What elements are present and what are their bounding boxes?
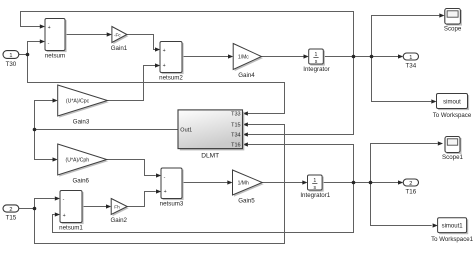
wire: Scope1 riser and simout1 line — [371, 144, 438, 226]
svg-text:+: + — [163, 63, 166, 69]
svg-text:Scope: Scope — [444, 26, 462, 33]
gain Gain6 — [58, 144, 108, 185]
arrowhead 14 — [243, 142, 248, 146]
svg-text:-: - — [63, 197, 65, 203]
arrowhead 8 — [398, 54, 403, 58]
arrowhead 25 — [438, 141, 443, 145]
svg-text:Integrator: Integrator — [303, 66, 329, 73]
svg-text:Scope1: Scope1 — [442, 154, 464, 161]
wire: netsum1 out to Gain2 — [82, 206, 106, 208]
svg-text:To Workspace: To Workspace — [433, 112, 472, 119]
to workspace simout — [433, 94, 472, 120]
svg-text:Integrator1: Integrator1 — [300, 192, 330, 199]
svg-text:Gain4: Gain4 — [238, 72, 255, 79]
arrowhead 17 — [55, 196, 60, 200]
arrowhead 15 — [53, 98, 58, 102]
svg-text:1/Mh: 1/Mh — [238, 180, 249, 186]
svg-text:s: s — [314, 185, 317, 191]
arrowhead 19 — [106, 204, 111, 208]
arrowhead 18 — [55, 212, 60, 216]
svg-text:Gain2: Gain2 — [110, 217, 127, 224]
scope Scope1 — [442, 137, 464, 162]
wire: Gain3 out to netsum2 in2 — [107, 66, 154, 101]
junction dot 3 — [26, 53, 30, 57]
arrowhead 23 — [302, 180, 307, 184]
svg-text:(U*A)/Cpc: (U*A)/Cpc — [66, 98, 90, 104]
scope Scope — [444, 9, 462, 33]
arrowhead 20 — [156, 173, 161, 177]
arrowhead 5 — [155, 63, 160, 67]
wire: Gain1 out to netsum2 in1 — [127, 35, 155, 50]
svg-text:Gain3: Gain3 — [73, 119, 90, 126]
svg-text:1: 1 — [9, 53, 12, 59]
arrowhead 13 — [243, 132, 248, 136]
junction dot 1 — [352, 55, 356, 59]
svg-text:-: - — [164, 175, 166, 181]
port inport 1 T30 — [3, 51, 19, 68]
svg-text:netsum: netsum — [45, 52, 65, 59]
arrowhead 2 — [40, 39, 45, 43]
wire: feedback T34 to netsum and DLMT T34 — [21, 12, 354, 135]
junction dot 4 — [33, 128, 37, 132]
svg-text:T16: T16 — [231, 143, 240, 149]
port outport 1 T34 — [403, 53, 418, 69]
svg-text:+: + — [48, 25, 51, 31]
wire: Scope riser and simout line — [372, 16, 439, 102]
integrator Integrator — [303, 49, 329, 73]
wire: T15 input to netsum1 in1 and DLMT T15 — [19, 125, 285, 244]
integrator Integrator1 — [300, 175, 330, 199]
gain Gain4 — [233, 44, 263, 80]
svg-text:netsum3: netsum3 — [160, 200, 184, 207]
arrowhead 22 — [227, 180, 232, 184]
sum block netsum1 — [59, 191, 83, 232]
junction dot 6 — [352, 181, 356, 185]
svg-text:netsum1: netsum1 — [59, 225, 83, 232]
sum block netsum3 — [160, 168, 184, 207]
gain Gain2 — [110, 199, 128, 225]
arrowhead 7 — [304, 54, 309, 58]
sum block netsum — [45, 19, 67, 60]
svg-text:T15: T15 — [6, 215, 17, 222]
svg-text:1: 1 — [409, 55, 412, 61]
wire: netsum3 out to Gain5 — [182, 182, 227, 184]
svg-text:+: + — [164, 189, 167, 195]
svg-text:Gain6: Gain6 — [72, 178, 89, 185]
svg-text:+: + — [163, 48, 166, 54]
wire: DLMT Out1 to Gain3 and Gain6 — [35, 101, 179, 160]
wire: Gain6 out to netsum3 in1 — [107, 160, 156, 176]
arrowhead 21 — [156, 189, 161, 193]
wire: Integrator out to T34 outport — [323, 56, 397, 58]
wire: Gain5 out to Integrator1 — [262, 182, 302, 184]
arrowhead 24 — [398, 180, 403, 184]
svg-text:Gain5: Gain5 — [238, 198, 255, 205]
svg-text:T16: T16 — [406, 188, 417, 195]
to workspace simout1 — [431, 218, 473, 243]
gain Gain3 — [58, 85, 109, 126]
arrowhead 12 — [243, 122, 248, 126]
arrowhead 1 — [40, 24, 45, 28]
wire: Gain4 out to Integrator — [261, 56, 303, 58]
arrowhead 10 — [431, 99, 436, 103]
port outport 2 T16 — [403, 179, 418, 195]
svg-text:2: 2 — [409, 181, 412, 187]
wire: netsum2 out to Gain4 — [182, 56, 228, 58]
svg-text:netsum2: netsum2 — [159, 75, 183, 82]
svg-text:Gain1: Gain1 — [111, 45, 128, 52]
svg-text:Out1: Out1 — [180, 128, 192, 134]
junction dot 5 — [33, 207, 37, 211]
arrowhead 4 — [155, 47, 160, 51]
svg-text:DLMT: DLMT — [201, 153, 219, 160]
gain Gain1 — [111, 27, 129, 53]
svg-text:2: 2 — [9, 207, 12, 213]
wire: Gain2 out to netsum3 in2 — [127, 192, 155, 207]
svg-text:-Fc: -Fc — [114, 32, 121, 37]
svg-text:s: s — [315, 59, 318, 65]
wire: netsum out to Gain1 — [65, 34, 106, 36]
port inport 2 T15 — [3, 205, 19, 222]
svg-text:simout1: simout1 — [442, 224, 464, 230]
svg-text:To Workspace1: To Workspace1 — [431, 236, 473, 243]
arrowhead 9 — [439, 13, 444, 17]
svg-text:T33: T33 — [231, 112, 240, 118]
svg-text:simout: simout — [443, 99, 461, 105]
arrowhead 26 — [433, 223, 438, 227]
wire: DLMT T16 riser and feedback to netsum1 in2 — [53, 145, 354, 233]
svg-text:Fh: Fh — [114, 204, 120, 209]
arrowhead 16 — [53, 157, 58, 161]
arrowhead 6 — [228, 54, 233, 58]
svg-text:+: + — [63, 213, 66, 219]
junction dot 7 — [369, 181, 373, 185]
arrowhead 11 — [243, 111, 248, 115]
junction dot 2 — [370, 55, 374, 59]
svg-text:-: - — [48, 41, 50, 47]
sum block netsum2 — [159, 42, 183, 82]
svg-text:T34: T34 — [406, 62, 417, 69]
wire: Integrator1 out to T16 outport — [322, 182, 397, 184]
svg-text:T15: T15 — [231, 123, 240, 129]
gain Gain5 — [233, 170, 264, 205]
subsystem DLMT — [178, 110, 244, 160]
svg-text:(U*A)/Cph: (U*A)/Cph — [66, 157, 90, 163]
wire: T30 input to netsum in2 and DLMT T33 — [19, 42, 285, 114]
svg-text:T30: T30 — [6, 61, 17, 68]
arrowhead 3 — [107, 32, 112, 36]
svg-text:1/Mc: 1/Mc — [238, 54, 249, 60]
svg-text:T34: T34 — [231, 133, 240, 139]
